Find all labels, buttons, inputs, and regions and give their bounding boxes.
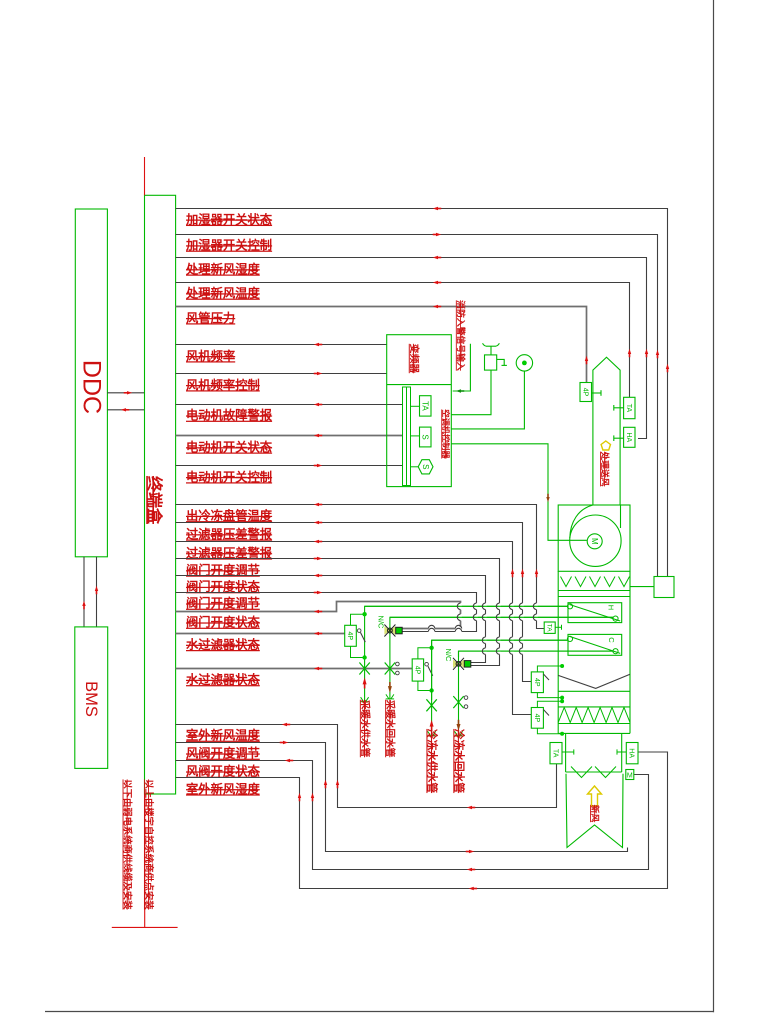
arrow on R4	[628, 349, 631, 354]
svg-text:M: M	[590, 538, 599, 545]
svg-text:TA: TA	[552, 749, 559, 758]
damper actuator M2	[626, 770, 634, 780]
arrow on R18	[314, 632, 319, 635]
svg-text:H: H	[607, 605, 616, 610]
arrow on R8	[314, 403, 319, 406]
section divider line 2	[558, 690, 630, 692]
svg-text:过滤器压差警报: 过滤器压差警报	[186, 527, 273, 542]
wire R18 水过滤器状态	[176, 633, 345, 635]
wire controller to fan motor M	[451, 444, 587, 541]
balance valve heating return V3	[385, 662, 400, 675]
wire bus to S box	[411, 435, 420, 437]
arrow on R23	[298, 793, 301, 798]
wire R15 阀门开度状态	[176, 576, 486, 663]
arrow on fire alarm line	[456, 389, 461, 392]
arrow on R1	[433, 207, 438, 210]
wire bus to hexagon S	[411, 466, 419, 468]
arrow on R13	[511, 569, 514, 574]
arrow on R21	[324, 780, 327, 785]
svg-text:阀门开度调节: 阀门开度调节	[186, 596, 260, 611]
svg-text:M: M	[627, 772, 633, 779]
drawing frame right border	[713, 0, 715, 1012]
svg-text:C: C	[607, 637, 616, 643]
svg-text:TA: TA	[545, 624, 552, 632]
wire R23 室外新风湿度	[176, 752, 668, 889]
yellow fresh air arrow	[588, 786, 602, 806]
HA duct tail	[614, 435, 624, 441]
VFD 变频器 box	[387, 335, 452, 487]
svg-text:S: S	[420, 434, 429, 439]
arrow on DDC lower wire	[121, 408, 126, 411]
TA duct tail	[614, 405, 624, 411]
red divider line below terminal box	[144, 794, 146, 927]
wire R2 加湿器开关控制	[176, 235, 658, 577]
arrow on R3	[645, 349, 648, 354]
AHU casing walls	[558, 571, 630, 733]
wire R1 加湿器开关状态	[176, 209, 668, 577]
svg-text:加湿器开关状态: 加湿器开关状态	[185, 212, 273, 227]
humidifier spray V pattern	[561, 577, 630, 587]
arrow on R6	[314, 343, 319, 346]
svg-text:N/C: N/C	[444, 649, 453, 663]
flow arrow chilled return	[457, 724, 461, 731]
arrow on R2	[656, 350, 659, 355]
arrow on R13	[314, 540, 319, 543]
svg-text:以下由弱电系统商供线缆及安装: 以下由弱电系统商供线缆及安装	[123, 779, 134, 910]
arrow on R11	[535, 569, 538, 574]
BMS box	[75, 627, 108, 769]
wire pressure sensor to controller	[451, 371, 524, 429]
arrow on R23	[469, 887, 474, 890]
svg-text:冷冻水回水管: 冷冻水回水管	[452, 729, 465, 793]
4P B6 sensing lines	[537, 664, 564, 700]
hand valve chilled supply V5	[426, 699, 436, 711]
dP sensor 4P B11 chilled	[412, 659, 423, 681]
wire R8 电动机故障警报	[176, 404, 403, 406]
pipe heating return riser 采暖水回水管	[390, 617, 613, 699]
svg-text:阀门开度状态: 阀门开度状态	[186, 579, 260, 594]
svg-text:4P: 4P	[533, 678, 540, 687]
coil frame temperature sensor TA B5	[544, 622, 555, 633]
wire R20 室外新风温度	[176, 725, 557, 808]
svg-text:TA: TA	[420, 401, 429, 411]
arrow on R12	[314, 521, 319, 524]
supply air duct 处理送风	[593, 357, 620, 505]
wire R19 水过滤器状态	[176, 668, 413, 670]
flow arrow heating return	[388, 686, 392, 693]
arrow on R9	[314, 434, 319, 437]
arrow on R12	[521, 569, 524, 574]
humidifier section bottom line	[558, 590, 630, 592]
svg-text:4P: 4P	[581, 388, 588, 397]
arrow on R22	[467, 868, 472, 871]
arrow on R5	[433, 305, 438, 308]
hop arc strokes	[428, 603, 536, 654]
wire R10 电动机开关控制	[176, 465, 403, 467]
wire DDC to BMS left	[83, 557, 85, 627]
wire R5 风管压力	[176, 307, 587, 383]
arrow on R22	[285, 759, 290, 762]
svg-text:电动机开关状态: 电动机开关状态	[186, 440, 273, 455]
svg-text:BMS: BMS	[82, 681, 100, 717]
filter dP switch 4P B7	[531, 708, 543, 729]
svg-text:电动机开关控制: 电动机开关控制	[186, 469, 272, 484]
pressure sensor gauge B1	[516, 355, 532, 371]
terminal box 终端盒	[145, 195, 176, 794]
arrow on R1	[666, 364, 669, 369]
flow arrow chilled supply	[430, 720, 434, 727]
wire R16 阀门开度调节	[176, 593, 477, 632]
dP sensor 4P B10 heating	[345, 625, 357, 646]
TA B5 tail	[555, 625, 561, 630]
relay TA box U1	[420, 396, 432, 416]
humidifier control box U4	[654, 577, 674, 598]
svg-text:消防入警信号输入: 消防入警信号输入	[456, 300, 467, 371]
svg-text:风机频率控制: 风机频率控制	[186, 377, 260, 392]
fresh air banner 新风	[566, 774, 623, 848]
arrow on R21	[283, 741, 288, 744]
wire DDC to terminal box upper	[107, 392, 144, 394]
wire bus to TA	[411, 405, 420, 407]
wire R3 处理新风湿度	[176, 258, 647, 439]
DDC controller box	[75, 209, 107, 557]
svg-text:水过滤器状态: 水过滤器状态	[186, 672, 260, 687]
wire R12 过滤器压差警报	[176, 523, 532, 682]
outside air temperature sensor TA B8	[550, 743, 562, 764]
svg-text:采暖水供水管: 采暖水供水管	[359, 699, 371, 758]
controller terminal bus bar	[403, 387, 411, 486]
pipe heating supply riser 采暖水供水管	[365, 606, 568, 701]
arrow on fan motor wire	[546, 497, 549, 502]
pipe chilled supply riser 冷冻水供水管	[432, 640, 568, 736]
arrow on R2	[436, 233, 441, 236]
svg-text:水过滤器状态: 水过滤器状态	[186, 637, 260, 652]
arrow on R20	[282, 723, 287, 726]
filter zigzag section	[558, 707, 630, 724]
arrow on R5	[585, 356, 588, 361]
section divider line	[558, 596, 630, 598]
svg-text:终端盒: 终端盒	[145, 476, 164, 525]
svg-text:TA: TA	[625, 404, 632, 413]
svg-text:处理新风温度: 处理新风温度	[185, 286, 260, 301]
outside air humidity sensor HA B9	[626, 743, 638, 764]
drawing frame bottom border	[45, 1011, 714, 1013]
relay S box U2	[420, 427, 432, 447]
balance valve chilled return V6	[453, 696, 468, 709]
svg-text:风阀开度调节: 风阀开度调节	[186, 746, 260, 761]
svg-text:4P: 4P	[346, 632, 353, 641]
arrow on R3	[433, 256, 438, 259]
wire R14 阀门开度调节	[176, 559, 500, 666]
pipe chilled return riser 冷冻水回水管	[459, 651, 614, 736]
4P duct tail	[592, 390, 602, 396]
svg-text:变频器: 变频器	[408, 344, 421, 374]
wire R9 电动机开关状态	[176, 435, 403, 437]
arrow on R21	[469, 850, 474, 853]
wire DDC to terminal box lower	[107, 409, 144, 411]
wire DDC to BMS right	[96, 557, 98, 627]
wire R21 风阀开度调节	[176, 743, 628, 852]
VFD divider line	[387, 384, 452, 386]
duct humidity sensor HA B4	[624, 427, 635, 447]
arrow on R15	[314, 574, 319, 577]
svg-text:风阀开度状态: 风阀开度状态	[186, 764, 260, 779]
arrow on R20	[336, 780, 339, 785]
svg-text:风管压力: 风管压力	[186, 310, 235, 325]
fire alarm input line 消防入警信号输入	[453, 344, 471, 391]
fan scroll	[570, 505, 621, 566]
svg-text:4P: 4P	[533, 714, 540, 723]
svg-text:HA: HA	[625, 432, 632, 442]
arrow on R11	[314, 503, 319, 506]
svg-text:出冷冻盘管温度: 出冷冻盘管温度	[186, 508, 273, 523]
flow arrow heating supply	[363, 678, 367, 685]
motorized valve N/C chilled V4	[453, 658, 471, 670]
svg-text:处理送风: 处理送风	[600, 451, 611, 487]
arrow on DDC-BMS left wire	[82, 601, 85, 606]
AHU bottom line	[558, 732, 630, 734]
svg-text:阀门开度状态: 阀门开度状态	[186, 615, 260, 630]
wire hop arcs at pipe crossings	[365, 603, 613, 700]
4P B7 sensing lines	[537, 699, 564, 735]
duct pressure sensor 4P B2	[580, 383, 592, 402]
yellow aroma symbol on duct	[601, 441, 610, 450]
arrow on R7	[317, 372, 322, 375]
arrow on DDC upper wire	[127, 391, 132, 394]
svg-text:HA: HA	[628, 748, 635, 758]
arrow on R14	[317, 557, 322, 560]
svg-text:新风: 新风	[590, 805, 601, 823]
arrow on R19	[314, 667, 319, 670]
arrow on R22	[311, 793, 314, 798]
drain pan eliminator	[558, 674, 630, 688]
svg-text:电动机故障警报: 电动机故障警报	[186, 408, 273, 423]
HA B9 tail	[617, 749, 626, 754]
wire R13 过滤器压差警报	[176, 542, 532, 715]
wire humidifier box to AHU	[630, 586, 654, 588]
filter dP switch 4P B6	[531, 672, 543, 693]
wire R4 处理新风温度	[176, 283, 630, 398]
svg-text:冷冻水供水管: 冷冻水供水管	[426, 729, 439, 793]
motorized valve N/C heating V1	[384, 625, 402, 637]
svg-text:处理新风湿度: 处理新风湿度	[185, 262, 260, 277]
wire R7 风机频率控制	[176, 373, 387, 375]
arrow on R17	[314, 610, 319, 613]
svg-text:4P: 4P	[413, 666, 420, 675]
wire R11 出冷冻盘管温度	[176, 505, 545, 629]
arrow on R10	[317, 464, 322, 467]
svg-text:N/C: N/C	[376, 616, 385, 630]
pressure switch S1 on supply duct	[483, 343, 507, 370]
hexagon S starter U3	[418, 460, 433, 474]
svg-text:室外新风湿度: 室外新风湿度	[186, 781, 260, 796]
arrow on R20	[467, 806, 472, 809]
wire R22 风阀开度状态	[176, 761, 649, 870]
fan motor M1	[587, 534, 602, 549]
arrow on DDC-BMS right wire	[95, 586, 98, 591]
arrow on R4	[433, 281, 438, 284]
svg-text:风机频率: 风机频率	[186, 348, 235, 363]
svg-text:采暖水回水管: 采暖水回水管	[384, 699, 396, 758]
chilled supply pipe break symbol	[427, 731, 435, 736]
TA B8 tail	[562, 749, 574, 754]
svg-text:室外新风温度: 室外新风温度	[186, 728, 260, 743]
4P B11 sensing lines	[418, 646, 434, 693]
heating return pipe break symbol	[386, 694, 394, 699]
fresh air intake neck	[566, 733, 622, 772]
fresh air damper	[566, 767, 622, 778]
svg-text:空调机控制器: 空调机控制器	[441, 409, 451, 459]
hand valve heating supply V2	[359, 663, 369, 675]
4P B10 sensing lines	[351, 612, 367, 660]
wire pressure switch to controller	[451, 370, 491, 415]
chilled return pipe break symbol	[454, 731, 462, 736]
cooling coil C	[567, 634, 621, 655]
svg-text:加湿器开关控制: 加湿器开关控制	[185, 238, 272, 253]
red stub line above terminal box	[144, 157, 146, 195]
svg-text:以上由楼宇自控系统商供点安装: 以上由楼宇自控系统商供点安装	[144, 779, 155, 910]
wire R6 风机频率	[176, 344, 387, 346]
svg-text:DDC: DDC	[77, 360, 105, 414]
red divider horizontal tick	[112, 926, 178, 928]
heating supply pipe break symbol	[360, 697, 368, 702]
wire R17 阀门开度状态	[176, 602, 461, 629]
arrow on R16	[317, 591, 322, 594]
fan box	[558, 505, 630, 571]
duct temperature sensor TA B3	[624, 397, 635, 418]
svg-text:S: S	[421, 464, 430, 469]
heating coil H	[567, 603, 621, 623]
